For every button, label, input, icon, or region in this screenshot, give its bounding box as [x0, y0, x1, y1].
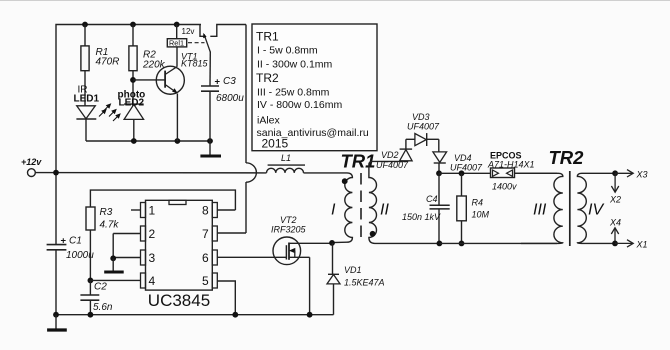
svg-text:VD1: VD1	[344, 265, 362, 275]
svg-text:L1: L1	[281, 153, 291, 163]
svg-text:R3: R3	[100, 207, 113, 218]
wire: switched 12v down to pin 7 with hop over +12v feed	[246, 25, 256, 234]
svg-text:470R: 470R	[96, 57, 120, 68]
svg-text:UF4007: UF4007	[450, 163, 483, 173]
svg-text:1400v: 1400v	[492, 182, 517, 192]
TR2 core	[569, 171, 571, 246]
svg-text:A71-H14X1: A71-H14X1	[487, 160, 535, 170]
wire: pin 4 feed	[90, 279, 140, 281]
svg-text:TR2: TR2	[256, 71, 279, 85]
wire: top rail of control circuit	[56, 25, 201, 173]
svg-text:II - 300w 0.1mm: II - 300w 0.1mm	[257, 59, 333, 71]
svg-text:X1: X1	[636, 240, 648, 250]
svg-text:Rel1: Rel1	[169, 38, 184, 47]
svg-text:3: 3	[149, 251, 156, 265]
svg-text:C1: C1	[69, 236, 82, 247]
wire: left vertical below +12v node down to bottom rail	[55, 173, 57, 245]
svg-text:4: 4	[149, 274, 156, 288]
svg-text:VD4: VD4	[454, 153, 472, 163]
svg-text:X4: X4	[609, 218, 621, 228]
svg-text:4.7k: 4.7k	[100, 220, 120, 231]
svg-text:iAlex: iAlex	[257, 115, 281, 127]
svg-text:C3: C3	[223, 76, 236, 87]
svg-text:+12v: +12v	[21, 157, 42, 167]
capacitor C3	[201, 52, 244, 142]
TR2 winding IV	[577, 173, 615, 243]
transistor VT2 IRF3205 (MOSFET)	[271, 215, 332, 318]
wire: output top rail	[439, 172, 491, 174]
TR1 winding I (primary)	[331, 173, 352, 243]
svg-text:II: II	[380, 202, 389, 219]
node: R2 top junction	[130, 22, 136, 28]
diode VD2 UF4007	[376, 139, 412, 170]
svg-text:KT815: KT815	[181, 59, 209, 69]
svg-text:UC3845: UC3845	[148, 291, 210, 310]
svg-text:LED2: LED2	[119, 98, 145, 109]
pin 1	[131, 203, 156, 218]
svg-text:X3: X3	[636, 170, 648, 180]
svg-text:6800u: 6800u	[216, 93, 244, 104]
svg-text:10M: 10M	[472, 210, 490, 220]
TR1 core (dashed)	[360, 173, 362, 241]
pin 6	[202, 250, 286, 265]
node: +12v tap to control circuit	[53, 170, 59, 176]
svg-text:TR2: TR2	[549, 147, 585, 168]
inductor L1	[267, 153, 348, 173]
svg-text:6: 6	[202, 251, 209, 265]
wire: bottom ground rail	[56, 314, 334, 316]
diode VD3 UF4007	[406, 112, 440, 146]
svg-text:1.5KE47A: 1.5KE47A	[344, 278, 385, 288]
phase dot winding I	[342, 178, 348, 184]
TR2 winding III	[515, 173, 563, 243]
svg-text:7: 7	[202, 227, 209, 241]
node: LED2 bottom	[131, 138, 137, 144]
photodiode LED2	[109, 90, 145, 142]
wire: control circuit bottom rail	[86, 140, 210, 142]
output X1 arrow	[612, 240, 647, 250]
pin 3	[113, 250, 155, 265]
wire: +12v horizontal feed	[35, 172, 266, 174]
ground below C3	[200, 141, 221, 156]
dashed actuator link from Rel1 to contact	[188, 42, 205, 44]
resistor R3	[86, 190, 235, 280]
output X4 arrow	[609, 218, 621, 244]
svg-text:IV - 800w 0.16mm: IV - 800w 0.16mm	[257, 99, 342, 111]
svg-text:III - 25w 0.8mm: III - 25w 0.8mm	[257, 87, 330, 99]
svg-text:IRF3205: IRF3205	[271, 225, 307, 235]
pin 4	[141, 273, 156, 288]
ground at bottom-left rail	[47, 312, 67, 330]
IR emission arrows	[99, 103, 111, 116]
svg-text:VD3: VD3	[412, 112, 430, 122]
svg-text:8: 8	[202, 204, 209, 218]
pin 7	[202, 226, 246, 241]
svg-text:VT2: VT2	[280, 215, 297, 225]
node: VT1 base tap on R2 leg	[130, 77, 136, 83]
capacitor C2	[80, 280, 113, 317]
svg-text:+: +	[61, 236, 67, 247]
svg-text:VD2: VD2	[381, 150, 399, 160]
svg-text:2015: 2015	[262, 137, 289, 151]
pin 8	[202, 203, 235, 218]
node: relay coil top junction	[174, 22, 180, 28]
svg-text:R4: R4	[472, 198, 484, 208]
info text box	[252, 24, 377, 151]
svg-text:TR1: TR1	[256, 30, 279, 44]
pin 5	[202, 273, 238, 318]
node: R3/C2/pin4 junction	[88, 278, 94, 284]
relay coil Rel1	[167, 25, 194, 48]
svg-text:I: I	[331, 202, 336, 219]
svg-text:5.6n: 5.6n	[93, 302, 113, 313]
resistor R1	[81, 25, 120, 106]
svg-text:III: III	[533, 202, 547, 219]
faint top edge line	[0, 0, 670, 2]
transistor VT1 KT815	[133, 47, 209, 141]
surge arrester F1 EPCOS A71-H14X1	[487, 151, 557, 192]
svg-text:UF4007: UF4007	[376, 160, 409, 170]
+12v input terminal	[21, 157, 42, 177]
IC U1 UC3845 body	[146, 200, 213, 310]
light arrows into LED2	[109, 109, 121, 121]
diode VD1 1.5KE47A	[327, 243, 385, 315]
node: VT1 emitter bottom	[175, 138, 181, 144]
svg-text:IV: IV	[588, 202, 604, 219]
output X2 arrow	[609, 173, 621, 204]
capacitor C4	[402, 173, 450, 246]
wire: output bottom rail	[439, 242, 557, 244]
node: VT2 drain / TR1 primary bottom	[329, 240, 335, 246]
svg-text:C2: C2	[94, 282, 107, 293]
output X3 arrow	[612, 170, 647, 180]
svg-text:UF4007: UF4007	[407, 122, 440, 132]
svg-text:150n 1kV: 150n 1kV	[402, 212, 441, 222]
pins 2+3 ground branch	[104, 234, 124, 273]
relay contact switch	[188, 25, 246, 53]
svg-text:12v: 12v	[182, 27, 195, 36]
resistor R4	[457, 173, 490, 246]
svg-text:X2: X2	[609, 195, 621, 205]
node: C3 bottom	[207, 138, 213, 144]
svg-text:5: 5	[202, 274, 209, 288]
svg-text:+: +	[215, 77, 221, 88]
LED D1 (IR LED1)	[74, 85, 112, 142]
TR1 winding II (secondary)	[369, 161, 440, 243]
pin 2	[113, 226, 155, 241]
svg-text:LED1: LED1	[74, 94, 100, 105]
node: R1 top junction	[82, 22, 88, 28]
svg-text:C4: C4	[426, 194, 438, 204]
svg-text:I - 5w 0.8mm: I - 5w 0.8mm	[257, 45, 318, 57]
diode VD4 UF4007	[433, 139, 483, 173]
resistor R2	[129, 25, 166, 105]
svg-text:2: 2	[149, 227, 156, 241]
svg-text:1: 1	[149, 204, 156, 218]
svg-text:TR1: TR1	[341, 151, 376, 172]
node: VD4 output junction	[436, 170, 442, 176]
capacitor C1	[47, 236, 95, 262]
node: R4 top junction	[459, 170, 465, 176]
